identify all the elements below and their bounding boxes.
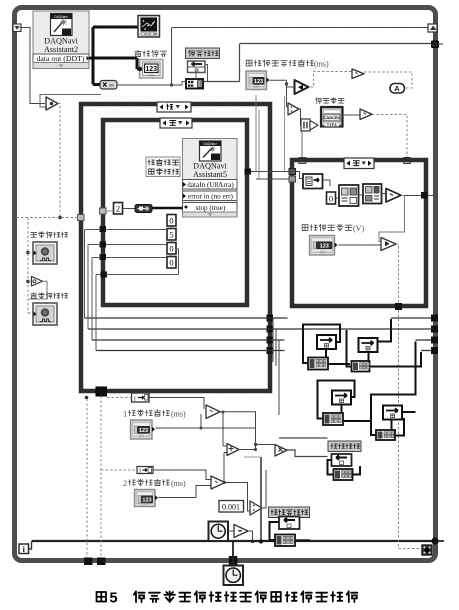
svg-text:Assistant2: Assistant2 [44, 45, 78, 54]
svg-text:TYP1: TYP1 [327, 122, 338, 127]
svg-text:Assistant5: Assistant5 [193, 170, 227, 179]
svg-text:DAQNavi: DAQNavi [203, 142, 217, 146]
svg-text:stop (true): stop (true) [196, 204, 226, 212]
svg-text:data out (DDT): data out (DDT) [36, 54, 84, 63]
svg-text:5: 5 [110, 591, 118, 607]
svg-text:error in (no err): error in (no err) [188, 193, 234, 201]
svg-text:2: 2 [116, 204, 120, 214]
svg-text:123: 123 [254, 85, 260, 89]
svg-text:CANCEL: CANCEL [323, 115, 340, 120]
svg-text:(ms): (ms) [171, 410, 186, 419]
svg-text:0: 0 [329, 194, 333, 204]
svg-text:(V): (V) [353, 224, 364, 233]
svg-text:1: 1 [133, 396, 136, 403]
svg-text:dbl: dbl [109, 83, 114, 88]
svg-text:0: 0 [169, 216, 173, 226]
svg-text:123: 123 [320, 243, 329, 249]
svg-text:123: 123 [142, 502, 148, 506]
svg-text:123: 123 [139, 434, 145, 438]
svg-text:5: 5 [169, 230, 173, 240]
svg-text:123: 123 [145, 66, 157, 73]
svg-text:1: 1 [123, 409, 127, 418]
svg-text:DAQNavi: DAQNavi [54, 15, 68, 19]
svg-text:(ms): (ms) [314, 60, 329, 69]
svg-text:1: 1 [139, 469, 142, 475]
svg-text:0.001: 0.001 [222, 503, 240, 512]
svg-text:123: 123 [319, 250, 325, 254]
svg-text:A: A [394, 84, 400, 93]
svg-text:2: 2 [123, 479, 127, 488]
svg-text:123: 123 [139, 428, 148, 434]
svg-text:(ms): (ms) [171, 479, 186, 488]
svg-text:DBL: DBL [148, 74, 155, 78]
svg-text:0: 0 [169, 258, 173, 268]
svg-text:0: 0 [169, 244, 173, 254]
svg-text:dataIn (U8Arra): dataIn (U8Arra) [187, 181, 234, 189]
